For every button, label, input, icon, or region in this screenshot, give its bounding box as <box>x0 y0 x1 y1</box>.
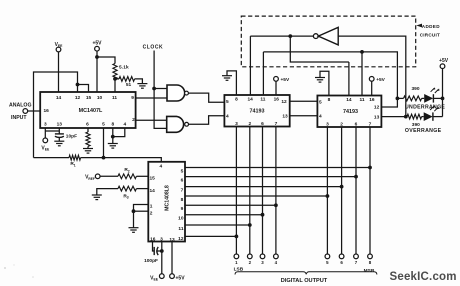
svg-text:11: 11 <box>260 97 265 103</box>
svg-text:10pF: 10pF <box>66 134 77 140</box>
junction bit1 / DAC pin 12 <box>235 235 239 239</box>
wire pin 5 stub down <box>103 128 105 158</box>
svg-text:16: 16 <box>369 97 375 103</box>
wire inverter input net <box>338 36 406 117</box>
svg-text:MC1408L8: MC1408L8 <box>164 185 170 211</box>
svg-text:SeekIC.com: SeekIC.com <box>390 271 457 283</box>
junction +5V rail / D1 <box>441 97 445 101</box>
capacitor 100pF <box>144 247 158 264</box>
svg-text:UNDERRANGE: UNDERRANGE <box>405 105 445 111</box>
wire pin 13 stub <box>58 128 60 134</box>
svg-text:11: 11 <box>112 95 117 101</box>
svg-text:DIGITAL OUTPUT: DIGITAL OUTPUT <box>281 278 328 284</box>
wire U3 pin 13 to overrange node <box>381 116 405 118</box>
wire pin 2 to node <box>134 210 149 212</box>
svg-text:ANALOG: ANALOG <box>9 103 31 109</box>
svg-text:14: 14 <box>150 188 156 194</box>
svg-text:10: 10 <box>178 216 184 222</box>
svg-text:74193: 74193 <box>343 109 358 115</box>
wire U3 pin 16 stub <box>371 81 373 95</box>
wire DAC pin 9 row <box>185 204 276 206</box>
wire G1 output to 74193 pin 5 <box>188 93 224 102</box>
svg-text:11: 11 <box>178 226 183 232</box>
wire R2 to pin 15 <box>136 175 148 177</box>
svg-text:4: 4 <box>275 260 278 265</box>
junction pin4/pin8 <box>111 135 115 139</box>
svg-text:CIRCUIT: CIRCUIT <box>420 33 440 38</box>
power terminal +5V (left) <box>92 41 102 51</box>
svg-text:6: 6 <box>340 260 343 265</box>
wire U3 pin 6 to output 7 <box>355 127 357 254</box>
wire feedback left vertical / top wire to pin 12 <box>34 72 78 158</box>
wire clock to NAND G1 input <box>154 88 167 90</box>
svg-text:MSB: MSB <box>364 268 375 274</box>
junction bit4 / DAC pin 9 <box>274 203 278 207</box>
svg-text:3: 3 <box>261 260 264 265</box>
svg-text:7: 7 <box>369 122 372 128</box>
reference terminal VREF <box>85 174 100 181</box>
wire pin 3 stub <box>44 128 46 138</box>
wire node to pin 11 <box>114 79 116 92</box>
output terminal 5 <box>325 254 330 265</box>
svg-text:2: 2 <box>132 117 135 123</box>
junction bit3 / DAC pin 10 <box>261 213 265 217</box>
svg-text:16: 16 <box>44 108 50 114</box>
svg-text:4: 4 <box>159 163 162 169</box>
svg-text:12: 12 <box>178 236 184 242</box>
resistor 5.1k <box>113 64 129 80</box>
svg-text:OVERRANGE: OVERRANGE <box>405 128 442 134</box>
wire inverter output net <box>250 35 313 37</box>
svg-text:14: 14 <box>56 95 62 101</box>
svg-text:2: 2 <box>248 121 251 127</box>
ground (51 ohm) <box>137 84 147 89</box>
wire MC1407L pin 9 to NAND G1 <box>136 97 167 99</box>
svg-text:+5V: +5V <box>176 275 186 281</box>
added circuit dashed box <box>241 16 415 67</box>
junction load net / U3 pin 11 <box>360 50 364 54</box>
ground (10pF) <box>54 141 64 146</box>
svg-text:7: 7 <box>181 188 184 194</box>
counter U2 74193 <box>224 95 289 127</box>
svg-text:6: 6 <box>261 121 264 127</box>
NAND gate G1 <box>167 85 188 101</box>
output terminal 2 <box>247 254 252 265</box>
wire U2 pin 6 to output 3 <box>262 127 264 255</box>
wire U2 pin 12 to U3 pin 5 <box>290 100 318 102</box>
svg-text:2: 2 <box>340 122 343 128</box>
wire pin 1 to node <box>134 205 149 212</box>
svg-text:VEE: VEE <box>41 145 50 151</box>
junction +5V node <box>95 55 99 59</box>
svg-text:6: 6 <box>86 121 89 127</box>
svg-text:12: 12 <box>374 105 380 111</box>
wire +5V to pin 10 <box>96 51 98 92</box>
power terminal +5V (U2 pin 16) <box>274 77 290 83</box>
wire load net (pins 11) <box>263 52 397 99</box>
op-amp U1 MC1407L <box>40 92 135 128</box>
counter U3 74193 <box>317 96 381 128</box>
label DIGITAL OUTPUT <box>281 278 328 284</box>
wire U3 pin 8 to ground <box>320 71 329 95</box>
wire branch to pin 15 <box>78 85 89 93</box>
wire U3 pin 3 to output 5 <box>326 127 328 254</box>
junction bit7 / DAC pin 6 <box>354 175 358 179</box>
svg-text:4: 4 <box>123 121 126 127</box>
wire clock vertical <box>154 51 167 129</box>
junction clock / gate input <box>152 87 156 91</box>
wire pin 3 down <box>161 242 163 274</box>
wire pin3-pin13 link <box>45 130 59 132</box>
wire +5V rail <box>442 68 444 116</box>
svg-text:MC1407L: MC1407L <box>79 108 103 114</box>
wire R1 to MC1408L8 pin 4 <box>81 158 162 162</box>
LED D2 overrange <box>424 105 439 121</box>
svg-text:4: 4 <box>226 113 229 119</box>
svg-text:7: 7 <box>355 260 358 265</box>
svg-text:1: 1 <box>150 204 153 210</box>
wire DAC pin 10 row <box>185 214 263 216</box>
svg-text:3: 3 <box>235 121 238 127</box>
svg-text:8: 8 <box>111 121 114 127</box>
svg-text:R2: R2 <box>124 167 129 173</box>
wire resistor to ground <box>87 146 89 148</box>
LED D1 underrange <box>424 87 439 103</box>
power terminal +5V (U3 pin 16) <box>369 77 385 83</box>
svg-text:6: 6 <box>355 122 358 128</box>
ground (pins 1,2) <box>129 228 139 233</box>
DAC U5 MC1408L8 <box>148 162 185 243</box>
svg-text:16: 16 <box>150 236 156 242</box>
wire MC1407L pin 2 to NAND G2 <box>136 119 167 121</box>
svg-text:10: 10 <box>97 95 103 101</box>
wire analog input to pin 16 <box>28 110 41 112</box>
junction pins 1,2 <box>132 209 136 213</box>
svg-text:3: 3 <box>326 122 329 128</box>
svg-text:8: 8 <box>235 97 238 103</box>
svg-text:+5V: +5V <box>92 41 102 47</box>
wire U2 pin 11 up <box>262 52 264 95</box>
capacitor 10pF <box>55 134 77 142</box>
svg-text:+5V: +5V <box>281 77 290 83</box>
svg-text:INPUT: INPUT <box>11 115 27 121</box>
svg-text:CLOCK: CLOCK <box>143 44 164 50</box>
junction inverter output branch <box>288 34 292 38</box>
svg-text:13: 13 <box>57 121 63 127</box>
svg-text:8: 8 <box>181 197 184 203</box>
label OVERRANGE <box>405 128 442 134</box>
ground (U2 pin 8) <box>222 76 232 81</box>
wire node to ground <box>133 211 135 228</box>
wire branch to U3 pin 14 <box>290 36 349 62</box>
junction bit6 / DAC pin 7 <box>340 185 344 189</box>
wire U2 pin 16 stub <box>275 81 277 95</box>
wire DAC pin 11 row <box>185 224 250 226</box>
wire node to ground <box>112 137 114 144</box>
junction pin 5 / R1 wire <box>102 156 106 160</box>
svg-text:15: 15 <box>150 176 156 182</box>
resistor R3 <box>97 186 137 200</box>
svg-text:5: 5 <box>226 99 229 105</box>
label UNDERRANGE <box>405 105 445 111</box>
svg-text:4: 4 <box>319 114 322 120</box>
NAND gate G2 <box>167 116 189 132</box>
junction 5.1k/51 node <box>113 77 117 81</box>
ground (pin 6 resistor) <box>83 149 93 154</box>
wire U2 pin 3 to output 1 <box>235 127 237 255</box>
power terminal VEE (DAC pin 3) <box>150 274 164 282</box>
wire DAC pin 7 row <box>185 186 342 188</box>
wire +5V node to 5.1k <box>97 57 115 64</box>
junction cap / pin 3 <box>160 249 164 253</box>
watermark SeekIC.com <box>390 271 457 283</box>
ground (pins 4,8) <box>108 144 118 149</box>
svg-text:2: 2 <box>249 260 252 265</box>
svg-text:+5V: +5V <box>439 58 449 64</box>
wire U3 pin 7 to output 8 <box>369 127 371 254</box>
junction pin 12 node <box>76 83 80 87</box>
wire pin 12 stub <box>77 85 79 93</box>
svg-text:8: 8 <box>328 97 331 103</box>
svg-text:1: 1 <box>235 260 238 265</box>
wire U2 pin 2 to output 2 <box>249 127 251 255</box>
svg-text:11: 11 <box>359 97 364 103</box>
svg-text:8: 8 <box>369 260 372 265</box>
wire D1 to +5V rail <box>433 97 442 99</box>
svg-text:+5V: +5V <box>376 77 385 83</box>
wire pin 13 down <box>171 242 173 274</box>
digital output brace <box>235 272 377 275</box>
label ADDED CIRCUIT <box>416 24 440 38</box>
svg-text:100pF: 100pF <box>144 258 158 264</box>
junction bit5 / DAC pin 8 <box>326 194 330 198</box>
svg-text:74193: 74193 <box>250 108 265 114</box>
analog input terminal <box>9 103 31 122</box>
svg-text:9: 9 <box>131 95 134 101</box>
svg-text:R3: R3 <box>123 193 128 199</box>
svg-text:2: 2 <box>150 210 153 216</box>
svg-text:390: 390 <box>412 122 420 128</box>
svg-text:VEE: VEE <box>55 42 64 48</box>
ground (U3 pin 8) <box>315 78 325 83</box>
wire U3 pin 14 up <box>348 62 350 96</box>
svg-text:14: 14 <box>346 97 352 103</box>
power terminal VEE (top left) <box>55 42 64 92</box>
svg-text:12: 12 <box>75 95 81 101</box>
wire DAC pin 8 row <box>185 195 327 197</box>
svg-text:16: 16 <box>274 97 280 103</box>
svg-text:14: 14 <box>248 97 254 103</box>
junction underrange node <box>396 97 400 101</box>
junction bit2 / DAC pin 11 <box>248 223 252 227</box>
wire pin 4 to pin 8 node <box>113 128 125 137</box>
power terminal +5V (top right) <box>439 58 449 69</box>
output terminal 6 <box>339 254 344 265</box>
resistor below pin 6 <box>86 132 90 146</box>
junction overrange node <box>404 115 408 119</box>
label LSB <box>234 266 244 272</box>
node CLOCK <box>143 44 164 50</box>
wire pin 6 stub <box>87 128 89 132</box>
svg-text:5: 5 <box>102 121 105 127</box>
svg-text:13: 13 <box>282 113 288 119</box>
svg-text:12: 12 <box>281 99 287 105</box>
wire cap to pin 3 net <box>157 250 162 252</box>
svg-text:51: 51 <box>126 82 132 88</box>
wire U2 pin 8 to ground <box>227 71 236 95</box>
svg-text:5: 5 <box>319 100 322 106</box>
resistor R2 <box>100 167 136 179</box>
junction bit8 / DAC pin 5 <box>368 166 372 170</box>
resistor 390 (underrange) <box>397 86 424 101</box>
inverter U4 <box>313 27 338 45</box>
output terminal 4 <box>274 254 279 265</box>
svg-text:5: 5 <box>181 168 184 174</box>
output terminal 1 <box>234 254 239 265</box>
wire DAC pin 5 row <box>185 167 370 169</box>
resistor 390 (overrange) <box>406 114 424 128</box>
output terminal 7 <box>354 254 359 265</box>
wire pin 16 to cap <box>153 242 155 252</box>
wire pin 8 stub <box>112 128 114 137</box>
svg-text:6: 6 <box>181 178 184 184</box>
svg-text:ADDED: ADDED <box>422 24 440 29</box>
power terminal VEE (below pin 3) <box>41 138 50 152</box>
resistor R1 <box>34 155 81 167</box>
wire 51 to ground <box>135 79 143 84</box>
wire U2 pin 7 to output 4 <box>275 127 277 255</box>
wire R3 to pin 14 <box>136 188 148 190</box>
svg-text:9: 9 <box>181 206 184 212</box>
svg-text:VREF: VREF <box>85 175 95 181</box>
svg-text:7: 7 <box>275 121 278 127</box>
power terminal +5V (DAC pin 13) <box>170 274 186 282</box>
wire U2 pin 13 to U3 pin 4 <box>290 115 318 117</box>
output terminal 8 <box>368 254 373 265</box>
wire U3 pin 11 up <box>361 52 363 96</box>
wire U2 pin 14 up <box>249 36 251 95</box>
wire G2 output to 74193 pin 4 <box>189 116 225 125</box>
svg-text:5.1k: 5.1k <box>119 65 129 71</box>
svg-text:390: 390 <box>411 86 419 92</box>
svg-text:5: 5 <box>326 260 329 265</box>
wire U3 pin 2 to output 6 <box>341 127 343 254</box>
svg-text:13: 13 <box>374 114 380 120</box>
output terminal 3 <box>260 254 265 265</box>
wire D2 to +5V rail <box>433 116 443 118</box>
svg-text:15: 15 <box>86 95 92 101</box>
svg-text:R1: R1 <box>70 161 75 167</box>
svg-text:VEE: VEE <box>150 275 159 281</box>
ground (R3) <box>92 195 102 200</box>
resistor 51 <box>115 77 135 89</box>
wire U3 pin 12 to underrange node <box>381 98 397 107</box>
svg-text:3: 3 <box>44 121 47 127</box>
scan speck <box>4 264 34 278</box>
wire DAC pin 6 row <box>185 176 356 178</box>
wire DAC pin 12 row <box>185 235 236 237</box>
label MSB <box>364 268 375 274</box>
